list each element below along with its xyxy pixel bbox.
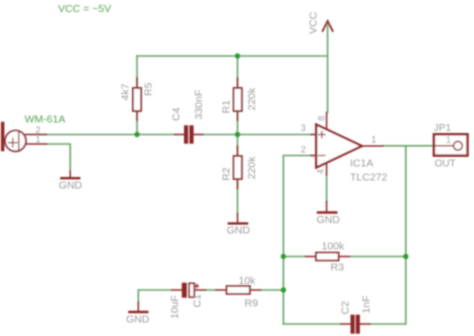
- svg-text:10k: 10k: [239, 275, 257, 287]
- svg-text:JP1: JP1: [434, 123, 452, 134]
- svg-text:IC1A: IC1A: [350, 158, 373, 170]
- svg-text:TLC272: TLC272: [350, 171, 388, 183]
- svg-text:GND: GND: [59, 179, 83, 191]
- svg-text:C2: C2: [340, 301, 352, 315]
- svg-text:R2: R2: [221, 167, 233, 181]
- svg-text:2: 2: [36, 125, 41, 135]
- svg-text:C4: C4: [171, 107, 183, 121]
- svg-text:VCC: VCC: [308, 11, 320, 34]
- svg-text:GND: GND: [227, 225, 251, 237]
- svg-text:R1: R1: [221, 100, 233, 114]
- svg-text:1: 1: [446, 135, 451, 145]
- svg-text:4k7: 4k7: [120, 83, 132, 100]
- svg-text:1: 1: [371, 135, 376, 145]
- svg-text:OUT: OUT: [435, 158, 456, 169]
- svg-text:220k: 220k: [246, 87, 258, 111]
- svg-text:GND: GND: [317, 214, 341, 226]
- svg-text:8: 8: [317, 116, 327, 121]
- svg-text:WM-61A: WM-61A: [25, 114, 66, 126]
- svg-text:R5: R5: [142, 82, 154, 96]
- svg-text:GND: GND: [126, 313, 150, 325]
- svg-text:C1: C1: [192, 294, 204, 308]
- svg-text:10uF: 10uF: [169, 295, 181, 319]
- svg-text:1: 1: [36, 135, 41, 145]
- svg-text:4: 4: [316, 169, 326, 174]
- svg-text:1nF: 1nF: [361, 295, 373, 313]
- svg-text:R3: R3: [331, 262, 345, 274]
- svg-text:100k: 100k: [322, 241, 346, 253]
- svg-text:220k: 220k: [246, 156, 258, 180]
- svg-text:330nF: 330nF: [193, 90, 205, 120]
- svg-text:VCC = ~5V: VCC = ~5V: [58, 3, 111, 15]
- svg-text:3: 3: [301, 123, 306, 133]
- svg-text:R9: R9: [245, 297, 259, 309]
- svg-text:2: 2: [301, 144, 306, 154]
